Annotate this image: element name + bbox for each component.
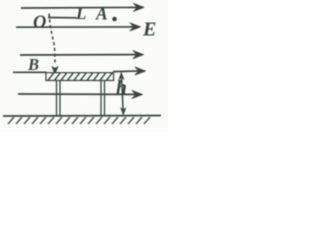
field line 4 right segment with arrow bbox=[113, 70, 139, 73]
right table leg bbox=[100, 81, 102, 116]
hatching inside table top bbox=[48, 73, 112, 80]
ground hatching bbox=[8, 117, 150, 124]
ground line bbox=[3, 115, 161, 118]
svg-text:O: O bbox=[33, 13, 46, 33]
svg-text:B: B bbox=[27, 55, 39, 74]
segment OA bbox=[48, 17, 77, 19]
svg-text:h: h bbox=[116, 78, 127, 99]
ball at A bbox=[112, 17, 117, 22]
svg-text:L: L bbox=[75, 4, 86, 23]
field line 3 bbox=[20, 54, 137, 56]
left table leg bbox=[56, 81, 58, 116]
field line 4 left segment (table-top level) bbox=[13, 71, 47, 73]
height arrow h (double headed) bbox=[122, 76, 124, 109]
small down arrow at B bbox=[52, 66, 58, 74]
field line 1 bbox=[21, 6, 138, 9]
svg-text:E: E bbox=[142, 19, 156, 41]
field line 5 (through legs) bbox=[18, 93, 136, 95]
svg-text:A: A bbox=[95, 4, 108, 24]
dashed drop line O to B bbox=[49, 14, 55, 65]
table top (hatched slab) bbox=[46, 73, 114, 81]
background scan tint bbox=[0, 0, 168, 132]
field line 2 bbox=[16, 26, 135, 28]
